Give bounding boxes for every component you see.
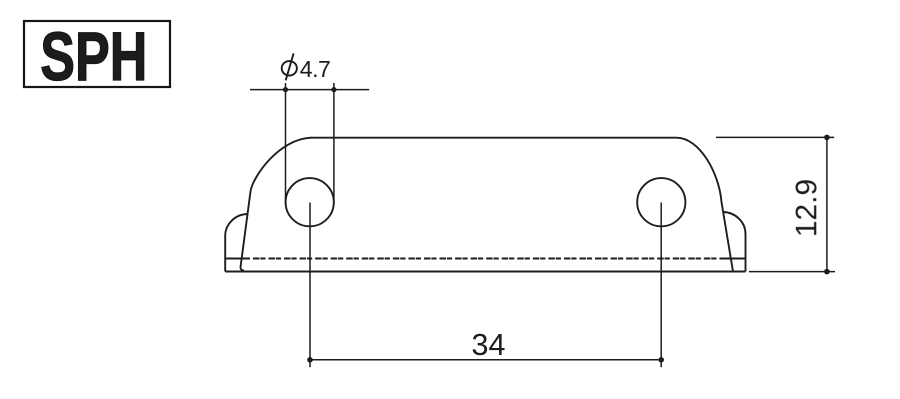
svg-text:4.7: 4.7 (300, 56, 331, 82)
svg-text:SPH: SPH (40, 18, 147, 95)
svg-text:34: 34 (472, 328, 506, 362)
svg-text:12.9: 12.9 (790, 179, 823, 237)
